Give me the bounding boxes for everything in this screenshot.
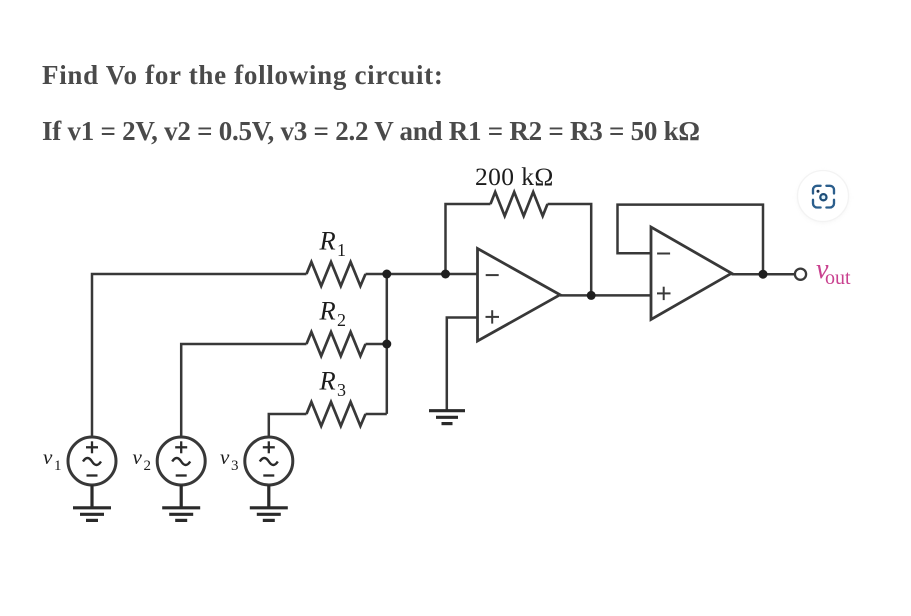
svg-text:2: 2 xyxy=(144,458,152,474)
U2 minus pin label xyxy=(657,253,670,255)
U1 plus pin label xyxy=(486,316,500,318)
wire U2 feedback loop xyxy=(618,205,764,275)
ground of v2 xyxy=(180,485,183,508)
resistor Rf 200k xyxy=(491,192,548,216)
v1 sine mark xyxy=(83,458,101,465)
wire U1 output to U2 non-inverting input xyxy=(560,294,651,297)
svg-text:v: v xyxy=(220,445,230,469)
svg-text:R: R xyxy=(319,226,336,256)
svg-text:3: 3 xyxy=(337,380,346,400)
wire R2 to summing bus xyxy=(366,343,387,346)
svg-text:1: 1 xyxy=(337,240,346,260)
svg-text:R: R xyxy=(319,366,336,396)
voltage source v3 xyxy=(245,437,293,485)
svg-text:R: R xyxy=(319,296,336,326)
resistor R1 xyxy=(307,262,366,286)
svg-text:v: v xyxy=(133,445,143,469)
svg-text:2: 2 xyxy=(337,310,346,330)
svg-text:3: 3 xyxy=(231,458,239,474)
ground of U1 non-inverting input xyxy=(429,409,465,412)
op-amp U1 xyxy=(478,249,561,342)
output terminal vout xyxy=(795,269,806,280)
junction node R1/bus xyxy=(382,270,391,279)
U2 plus pin label xyxy=(657,292,671,294)
resistor R2 xyxy=(307,332,366,356)
ground of v3 xyxy=(267,485,270,508)
voltage source v2 xyxy=(157,437,205,485)
op-amp U2 xyxy=(651,227,732,320)
wire v2 to R2 xyxy=(181,344,306,437)
svg-text:200 kΩ: 200 kΩ xyxy=(475,162,554,191)
voltage source v1 xyxy=(68,437,116,485)
wire v3 to R3 xyxy=(269,414,307,437)
svg-text:out: out xyxy=(825,267,851,289)
wire R1 to op-amp U1 inverting input xyxy=(366,273,478,276)
wire v1 to R1 xyxy=(92,274,307,437)
resistor R3 xyxy=(307,402,366,426)
v2 sine mark xyxy=(172,458,190,465)
svg-text:v: v xyxy=(43,445,53,469)
v2 polarity marks xyxy=(175,446,187,448)
junction node U1 output xyxy=(587,291,596,300)
v3 polarity marks xyxy=(263,446,275,448)
screenshot icon xyxy=(798,171,849,224)
ground of v1 xyxy=(90,485,93,508)
wire R3 to summing bus xyxy=(366,413,387,416)
wire U2 output to terminal xyxy=(732,273,795,276)
junction node U2 output xyxy=(759,270,768,279)
wire summing bus vertical xyxy=(386,274,389,414)
v3 sine mark xyxy=(260,458,278,465)
v1 polarity marks xyxy=(86,446,98,448)
wire feedback right to U1 output node xyxy=(548,204,592,295)
svg-text:1: 1 xyxy=(54,458,62,474)
U1 minus pin label xyxy=(486,274,499,276)
junction node R2/bus xyxy=(382,340,391,349)
wire U1 non-inverting input to ground xyxy=(447,318,478,410)
wire feedback left vertical xyxy=(446,204,491,274)
junction node feedback/U1 input xyxy=(441,270,450,279)
